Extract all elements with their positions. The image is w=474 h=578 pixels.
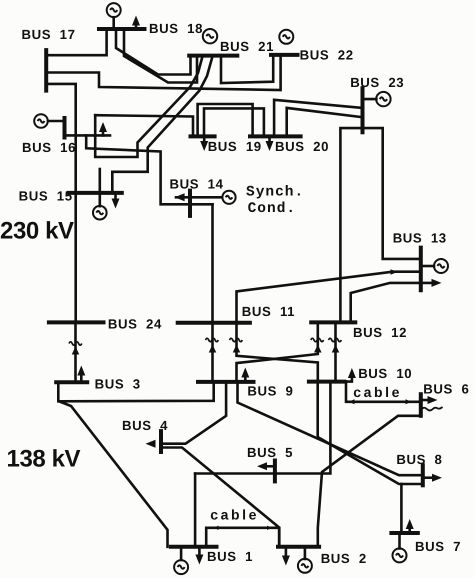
- svg-text:BUS 17: BUS 17: [22, 27, 76, 42]
- svg-text:BUS 8: BUS 8: [396, 452, 442, 467]
- svg-text:BUS 22: BUS 22: [300, 48, 354, 63]
- svg-text:BUS 21: BUS 21: [220, 39, 274, 54]
- svg-text:BUS 7: BUS 7: [415, 539, 461, 554]
- svg-text:230 kV: 230 kV: [0, 218, 74, 245]
- svg-text:BUS 10: BUS 10: [358, 366, 412, 381]
- svg-text:BUS 14: BUS 14: [170, 177, 224, 192]
- svg-text:BUS 4: BUS 4: [122, 418, 168, 433]
- svg-text:138 kV: 138 kV: [7, 446, 81, 473]
- svg-text:BUS 9: BUS 9: [247, 384, 293, 399]
- svg-text:BUS 18: BUS 18: [149, 21, 203, 36]
- svg-text:BUS 3: BUS 3: [95, 376, 141, 391]
- svg-text:BUS 1: BUS 1: [207, 549, 253, 564]
- svg-text:cable: cable: [353, 384, 402, 400]
- svg-text:BUS 12: BUS 12: [353, 325, 407, 340]
- svg-text:Synch.: Synch.: [246, 185, 304, 201]
- svg-text:BUS 15: BUS 15: [19, 189, 73, 204]
- svg-text:BUS 19: BUS 19: [208, 139, 262, 154]
- svg-text:BUS 20: BUS 20: [275, 139, 329, 154]
- svg-text:cable: cable: [210, 507, 259, 523]
- svg-text:BUS 24: BUS 24: [108, 316, 162, 331]
- svg-text:BUS 2: BUS 2: [321, 551, 367, 566]
- svg-text:BUS 13: BUS 13: [393, 231, 447, 246]
- svg-text:BUS 6: BUS 6: [423, 381, 469, 396]
- svg-text:BUS 16: BUS 16: [22, 140, 76, 155]
- svg-text:Cond.: Cond.: [248, 201, 297, 217]
- svg-text:BUS 5: BUS 5: [247, 445, 293, 460]
- svg-text:BUS 23: BUS 23: [350, 75, 404, 90]
- svg-text:BUS 11: BUS 11: [242, 304, 295, 319]
